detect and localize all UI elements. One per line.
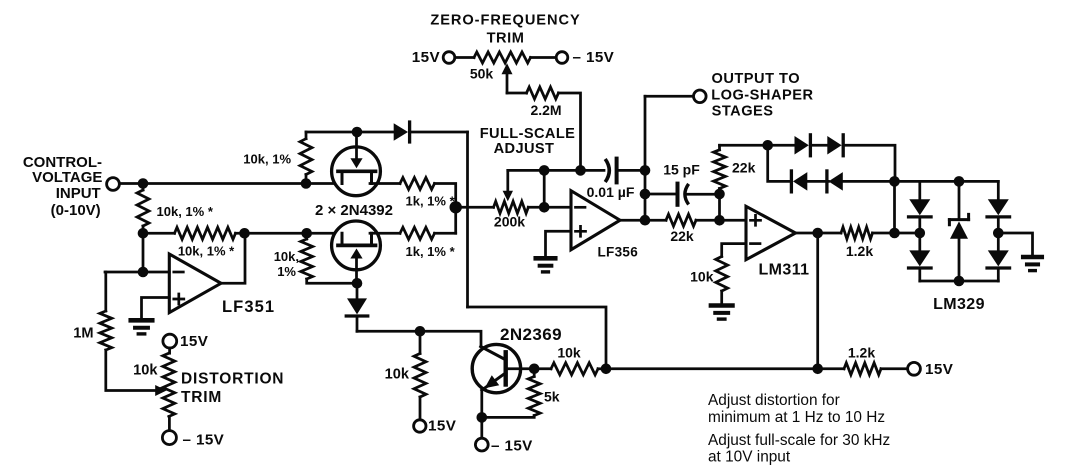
resistor 1M	[73, 272, 112, 350]
wire 22k top to diodes	[720, 144, 796, 147]
resistor 1.2k (to 15V)	[844, 345, 881, 375]
wire long vertical x467	[466, 132, 469, 307]
wire bridge to ground	[998, 233, 1032, 255]
svg-text:15V: 15V	[180, 333, 209, 350]
svg-text:1.2k: 1.2k	[848, 345, 875, 361]
capacitor 15pF	[663, 162, 700, 205]
terminal -15V (distortion bottom)	[162, 431, 224, 449]
diode D3 (lower pair)	[791, 171, 807, 192]
wire 15pF right	[687, 193, 720, 196]
wire LM311 output	[796, 232, 842, 235]
wire base to 10k	[506, 367, 551, 370]
junction FET1 gate top	[352, 127, 363, 138]
svg-text:LM311: LM311	[759, 262, 810, 279]
svg-text:(0-10V): (0-10V)	[51, 202, 101, 219]
junction second-line left node	[138, 228, 149, 239]
terminal -15V (50k pot right)	[556, 49, 614, 66]
wire LF356 output	[620, 219, 645, 222]
junction base-5k node	[529, 364, 540, 375]
terminal 15V (distortion top)	[163, 333, 209, 350]
svg-text:1%: 1%	[277, 264, 296, 279]
wire 200k to LF356 inverting input	[528, 206, 571, 209]
svg-text:15V: 15V	[428, 418, 457, 435]
svg-text:FULL-SCALE: FULL-SCALE	[480, 126, 576, 142]
junction LM311 output node	[812, 228, 823, 239]
wire 50k wiper to 2.2M	[507, 92, 527, 95]
wire to 2N2369 base node	[468, 307, 607, 369]
svg-text:DISTORTION: DISTORTION	[181, 371, 284, 388]
svg-text:1k, 1% *: 1k, 1% *	[406, 193, 456, 208]
ground (LF351 plus)	[131, 320, 153, 334]
junction input-divider node	[138, 178, 149, 189]
svg-text:10k,: 10k,	[274, 249, 299, 264]
potentiometer 200k	[494, 201, 529, 229]
terminal control voltage input	[107, 178, 120, 191]
svg-text:ADJUST: ADJUST	[494, 141, 555, 157]
wire top line y132	[306, 131, 394, 134]
wire gate-diode line to transistor	[357, 331, 481, 346]
wire cap to vertical node	[617, 169, 645, 172]
resistor 10k 1% * (to FET2 line)	[175, 227, 236, 258]
wire 1.2k to bridge	[873, 232, 897, 235]
capacitor 0.01uF	[587, 159, 635, 200]
wire LF351 output feedback	[221, 233, 245, 283]
potentiometer 50k	[455, 52, 531, 82]
wire drop to lower diodes	[768, 145, 792, 181]
wire LM311 plus input	[720, 219, 747, 222]
terminal output to log-shaper	[694, 90, 707, 103]
resistor 22k (feedback, vertical)	[714, 145, 756, 194]
junction 22k bottom node	[714, 189, 725, 200]
svg-text:Adjust distortion for: Adjust distortion for	[708, 392, 840, 409]
svg-text:0.01 µF: 0.01 µF	[587, 184, 635, 200]
wire LF356 plus to ground	[546, 231, 572, 256]
wire to log-shaper terminal	[645, 95, 694, 98]
svg-text:1k, 1% *: 1k, 1% *	[406, 244, 456, 259]
junction base line node	[601, 364, 612, 375]
wire bridge left branch	[918, 181, 921, 281]
junction 15pF left node	[640, 189, 651, 200]
wire 1M top to LF351 minus	[105, 271, 169, 274]
diode D1 (upper pair)	[795, 135, 811, 156]
junction bridge bottom center	[954, 276, 965, 287]
wire between upper diodes	[810, 144, 827, 147]
junction summing node (big)	[450, 201, 462, 213]
svg-text:10k: 10k	[557, 345, 581, 361]
junction bridge top center	[954, 176, 965, 187]
wire bridge top rail	[895, 180, 999, 183]
svg-text:TRIM: TRIM	[487, 31, 525, 47]
wire 1.2k to 15V terminal	[881, 367, 908, 370]
svg-text:1M: 1M	[73, 326, 93, 342]
svg-text:INPUT: INPUT	[56, 185, 101, 202]
junction bridge top-left node	[889, 176, 900, 187]
svg-text:2 × 2N4392: 2 × 2N4392	[315, 202, 393, 219]
svg-text:10k: 10k	[690, 268, 714, 284]
junction emitter node	[477, 412, 488, 423]
wire LM311 minus input	[722, 244, 746, 257]
diode (FET2 gate)	[346, 283, 368, 331]
wire bridge mid-left	[895, 232, 920, 235]
wire 15pF left	[645, 193, 677, 196]
junction LM311 plus node	[714, 215, 725, 226]
label 2 x 2N4392	[315, 202, 393, 219]
svg-text:STAGES: STAGES	[712, 103, 774, 119]
node label FULL-SCALE ADJUST	[480, 126, 576, 157]
node label CONTROL-VOLTAGE INPUT	[23, 154, 103, 219]
svg-text:Adjust full-scale for 30 kHz: Adjust full-scale for 30 kHz	[708, 432, 890, 449]
junction LF356 output node	[640, 215, 651, 226]
wire LF351 plus to ground	[142, 298, 170, 319]
wire integrator top line y170	[508, 169, 604, 172]
resistor 1k 1% * (FET1 drain)	[370, 178, 456, 209]
resistor 1k 1% * (FET2 drain)	[370, 227, 456, 258]
diode (FET1 top)	[394, 122, 410, 142]
svg-text:– 15V: – 15V	[573, 49, 615, 66]
resistor 2.2M	[527, 87, 562, 118]
svg-text:10k, 1%: 10k, 1%	[243, 151, 291, 166]
wire upper diodes to corner	[843, 145, 895, 181]
svg-text:LOG-SHAPER: LOG-SHAPER	[711, 87, 813, 103]
svg-text:200k: 200k	[494, 213, 525, 229]
wiper of 50k pot	[502, 63, 513, 93]
label LM329	[933, 296, 985, 313]
note adjust distortion	[708, 392, 885, 426]
svg-text:LM329: LM329	[933, 296, 985, 313]
node label DISTORTION TRIM	[181, 371, 284, 407]
wire second line y233	[143, 232, 341, 235]
svg-text:2.2M: 2.2M	[530, 102, 561, 118]
resistor 1.2k (output)	[841, 227, 873, 259]
wire bottom rail	[606, 367, 844, 370]
resistor 10k 1% (FET1 gate bias)	[243, 132, 312, 184]
resistor 10k (base)	[551, 345, 598, 375]
ground (LM329)	[1023, 257, 1042, 271]
wire bridge left vertical	[893, 181, 896, 233]
junction FET2 gate bottom	[352, 278, 363, 289]
svg-text:22k: 22k	[732, 160, 756, 176]
wire diode to right vertical	[412, 131, 468, 134]
zener diode LM329 reference	[949, 214, 968, 238]
op-amp LF351	[169, 254, 275, 316]
resistor 22k (series)	[645, 214, 720, 244]
terminal 15V (bottom right)	[908, 361, 954, 378]
wire vert x544 (y170 to 200k line)	[543, 170, 546, 207]
diode D4 (lower pair)	[827, 171, 843, 192]
svg-text:minimum at 1 Hz to 10 Hz: minimum at 1 Hz to 10 Hz	[708, 409, 885, 426]
diode bridge top-right	[987, 199, 1010, 217]
svg-text:10k: 10k	[133, 363, 158, 379]
wire lower diodes to bridge line	[843, 180, 895, 183]
potentiometer 10k DISTORTION TRIM	[133, 348, 175, 430]
wire input line	[119, 182, 341, 185]
svg-text:at 10V input: at 10V input	[708, 449, 791, 466]
junction 10k collector node	[415, 326, 426, 337]
wire 1M to distortion trim wiper	[106, 350, 167, 396]
op-amp LF356	[571, 191, 638, 260]
junction bridge left mid	[915, 228, 926, 239]
wire node to 200k	[456, 206, 494, 209]
svg-text:15 pF: 15 pF	[663, 162, 700, 178]
svg-text:LF351: LF351	[222, 298, 275, 316]
transistor FET1 2N4392 (upper)	[332, 132, 381, 196]
transistor Q1 2N2369	[472, 325, 562, 393]
svg-text:TRIM: TRIM	[181, 389, 222, 406]
resistor 10k (LM311 minus)	[690, 257, 728, 304]
ground (LM311 minus)	[711, 306, 733, 320]
wire vertical output node	[644, 96, 647, 220]
junction bridge right mid	[993, 228, 1004, 239]
svg-text:10k: 10k	[385, 367, 410, 383]
transistor FET2 2N4392 (lower)	[332, 221, 381, 283]
junction wiper-vert node	[539, 165, 550, 176]
svg-text:2N2369: 2N2369	[500, 325, 562, 344]
junction input to FET1 node	[301, 178, 312, 189]
ground (LF356 plus)	[536, 258, 556, 272]
svg-text:– 15V: – 15V	[183, 432, 225, 449]
wire 1k to summing node	[435, 184, 456, 234]
junction FET2 bias node	[301, 228, 312, 239]
junction 2.2M node	[575, 165, 586, 176]
svg-text:1.2k: 1.2k	[846, 243, 873, 259]
note adjust full-scale	[708, 432, 890, 466]
svg-text:22k: 22k	[670, 228, 694, 244]
diode bridge bottom-right	[987, 250, 1010, 268]
wire between lower diodes	[807, 180, 828, 183]
wire bridge right branch	[997, 181, 1000, 281]
resistor 10k (collector load)	[385, 331, 426, 419]
op-amp LM311 (comparator)	[746, 206, 809, 278]
resistor 10k 1% (FET2 gate bias)	[274, 233, 357, 283]
junction cap-right node	[640, 165, 651, 176]
wire emitter down	[480, 390, 483, 438]
diode bridge bottom-left	[909, 250, 932, 268]
svg-text:50k: 50k	[470, 66, 494, 82]
wire zener branch	[958, 181, 961, 281]
wire 22k node down to LM311 plus line	[718, 194, 721, 220]
resistor 10k 1% * (input series)	[137, 184, 214, 234]
wire 2.2M to node at y170	[559, 93, 581, 170]
svg-text:15V: 15V	[925, 361, 954, 378]
svg-text:OUTPUT TO: OUTPUT TO	[712, 71, 801, 87]
wire inverting bus down to LF351	[142, 233, 145, 272]
svg-text:5k: 5k	[544, 389, 560, 405]
wire full-scale wiper drop	[503, 170, 513, 201]
svg-text:10k, 1% *: 10k, 1% *	[157, 204, 214, 219]
junction 200k-LF356 node	[539, 202, 550, 213]
svg-text:ZERO-FREQUENCY: ZERO-FREQUENCY	[430, 12, 580, 28]
wire lower 1k to summing node	[435, 232, 456, 235]
wire bridge bottom rail	[920, 280, 999, 283]
junction LF351 feedback node	[239, 228, 250, 239]
wire LM311 output down	[816, 233, 819, 369]
junction bridge mid-left node	[889, 228, 900, 239]
node label ZERO-FREQUENCY TRIM	[430, 12, 580, 46]
diode D2 (upper pair)	[827, 135, 843, 156]
wire 50k to -15V terminal	[531, 56, 557, 59]
svg-text:– 15V: – 15V	[491, 437, 533, 454]
junction diode branch node	[762, 140, 773, 151]
junction bottom rail node	[812, 364, 823, 375]
svg-text:15V: 15V	[412, 49, 441, 66]
terminal -15V (emitter)	[475, 437, 533, 454]
diode bridge top-left	[909, 199, 932, 217]
junction LF351 minus node	[138, 267, 149, 278]
wire base 10k to node	[598, 367, 606, 370]
node label OUTPUT TO LOG-SHAPER STAGES	[711, 71, 813, 120]
svg-text:VOLTAGE: VOLTAGE	[32, 169, 102, 186]
terminal 15V (50k pot left)	[412, 49, 455, 66]
resistor 5k	[482, 369, 560, 418]
terminal 15V (collector load)	[414, 418, 457, 435]
svg-text:10k, 1% *: 10k, 1% *	[178, 243, 235, 258]
svg-text:LF356: LF356	[598, 244, 639, 259]
